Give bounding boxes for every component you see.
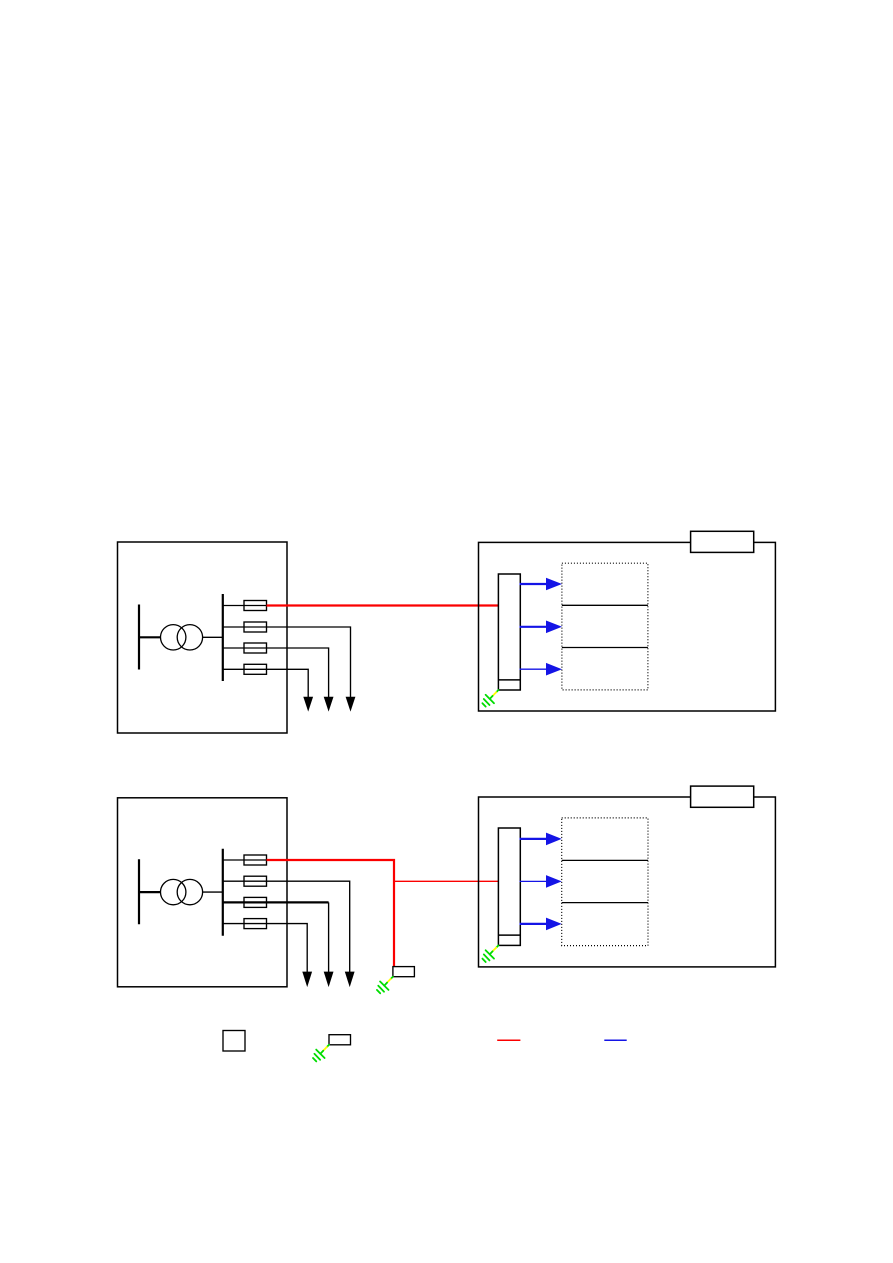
distribution board 2 terminal divider — [498, 934, 520, 936]
load group box 1 (dashed) — [562, 563, 648, 690]
wire: feeder circuit 3 — [223, 648, 329, 698]
ground: consumer 1 earth — [482, 690, 498, 707]
fuse F8 — [244, 919, 267, 929]
wire: MV bus 1 to transformer T1 — [139, 636, 161, 638]
circuit arrow 1.1 — [520, 578, 563, 591]
wire: feeder circuit 7 (PEN, bold) — [223, 901, 329, 903]
wire: transformer T1 to LV bus 1 — [203, 636, 223, 638]
busbar: MV bus 2 — [138, 859, 140, 924]
load group box 2 (dashed) — [562, 818, 648, 946]
transformer T2 primary winding — [161, 879, 186, 904]
wire: LV bus 1 to fuse F1 — [223, 605, 267, 607]
wire: feeder circuit 8 — [223, 924, 307, 973]
load arrow: feeder 8 — [302, 972, 312, 988]
distribution board 1 terminal divider — [498, 679, 520, 681]
distribution board 1 — [498, 574, 520, 690]
busbar: MV bus 1 — [138, 605, 140, 670]
label box: title plate 2 — [691, 786, 754, 807]
load arrow: feeder 7 — [324, 972, 334, 988]
fuse F5 — [244, 855, 267, 865]
enclosure: transformer station 1 — [118, 542, 288, 733]
fuse F2 — [244, 622, 267, 632]
load group 2 divider a — [562, 859, 648, 861]
transformer T2 secondary winding — [177, 879, 202, 904]
legend: enclosure symbol — [223, 1031, 245, 1052]
label box: title plate 1 — [691, 531, 754, 552]
wire: MV bus 2 to transformer T2 — [139, 891, 161, 893]
legend: earthing device symbol — [329, 1035, 351, 1045]
wire: red branch to consumer 2 — [394, 880, 498, 882]
circuit arrow 2.2 — [520, 875, 562, 888]
distribution board 2 — [498, 828, 520, 945]
fuse F3 — [244, 643, 267, 653]
ground: service earth electrode — [377, 977, 393, 994]
circuit arrow 2.3 — [520, 918, 562, 931]
circuit arrow 1.2 — [520, 621, 563, 634]
wire: feeder circuit 2 — [223, 627, 351, 698]
wire: feeder circuit 4 — [223, 669, 308, 697]
wire: feeder circuit 6 — [223, 881, 350, 972]
load group 1 divider b — [562, 647, 648, 649]
load group 2 divider b — [562, 902, 648, 904]
wire: red service line 2 (to earthing point) — [267, 860, 395, 967]
circuit arrow 2.1 — [520, 833, 562, 846]
enclosure: consumer installation 2 — [479, 797, 776, 967]
circuit arrow 1.3 — [520, 663, 563, 676]
load arrow: feeder 2 — [346, 697, 356, 712]
legend: ground symbol — [313, 1045, 329, 1062]
wire: feeder 7 drop — [328, 902, 330, 972]
fuse F7 — [244, 897, 267, 907]
legend: red service line sample — [497, 1039, 520, 1041]
transformer T1 primary winding — [161, 625, 186, 650]
fuse F6 — [244, 876, 267, 886]
wire: LV bus 2 to fuse F5 — [223, 859, 267, 861]
load group 1 divider a — [562, 604, 648, 606]
transformer T1 secondary winding — [177, 625, 202, 650]
earthing device (PEN earth link) — [393, 967, 415, 977]
busbar: LV bus 2 — [222, 849, 224, 936]
legend: blue circuit line sample — [604, 1039, 626, 1041]
wire: transformer T2 to LV bus 2 — [203, 891, 223, 893]
fuse F4 — [244, 664, 267, 674]
load arrow: feeder 4 — [303, 697, 313, 712]
wire: red service line to consumer 1 — [267, 604, 499, 606]
busbar: LV bus 1 — [222, 594, 224, 681]
enclosure: transformer station 2 — [118, 798, 288, 987]
enclosure: consumer installation 1 — [479, 542, 776, 711]
load arrow: feeder 3 — [324, 697, 334, 712]
load arrow: feeder 6 — [345, 972, 355, 988]
ground: consumer 2 earth — [482, 945, 498, 962]
fuse F1 — [244, 601, 267, 611]
